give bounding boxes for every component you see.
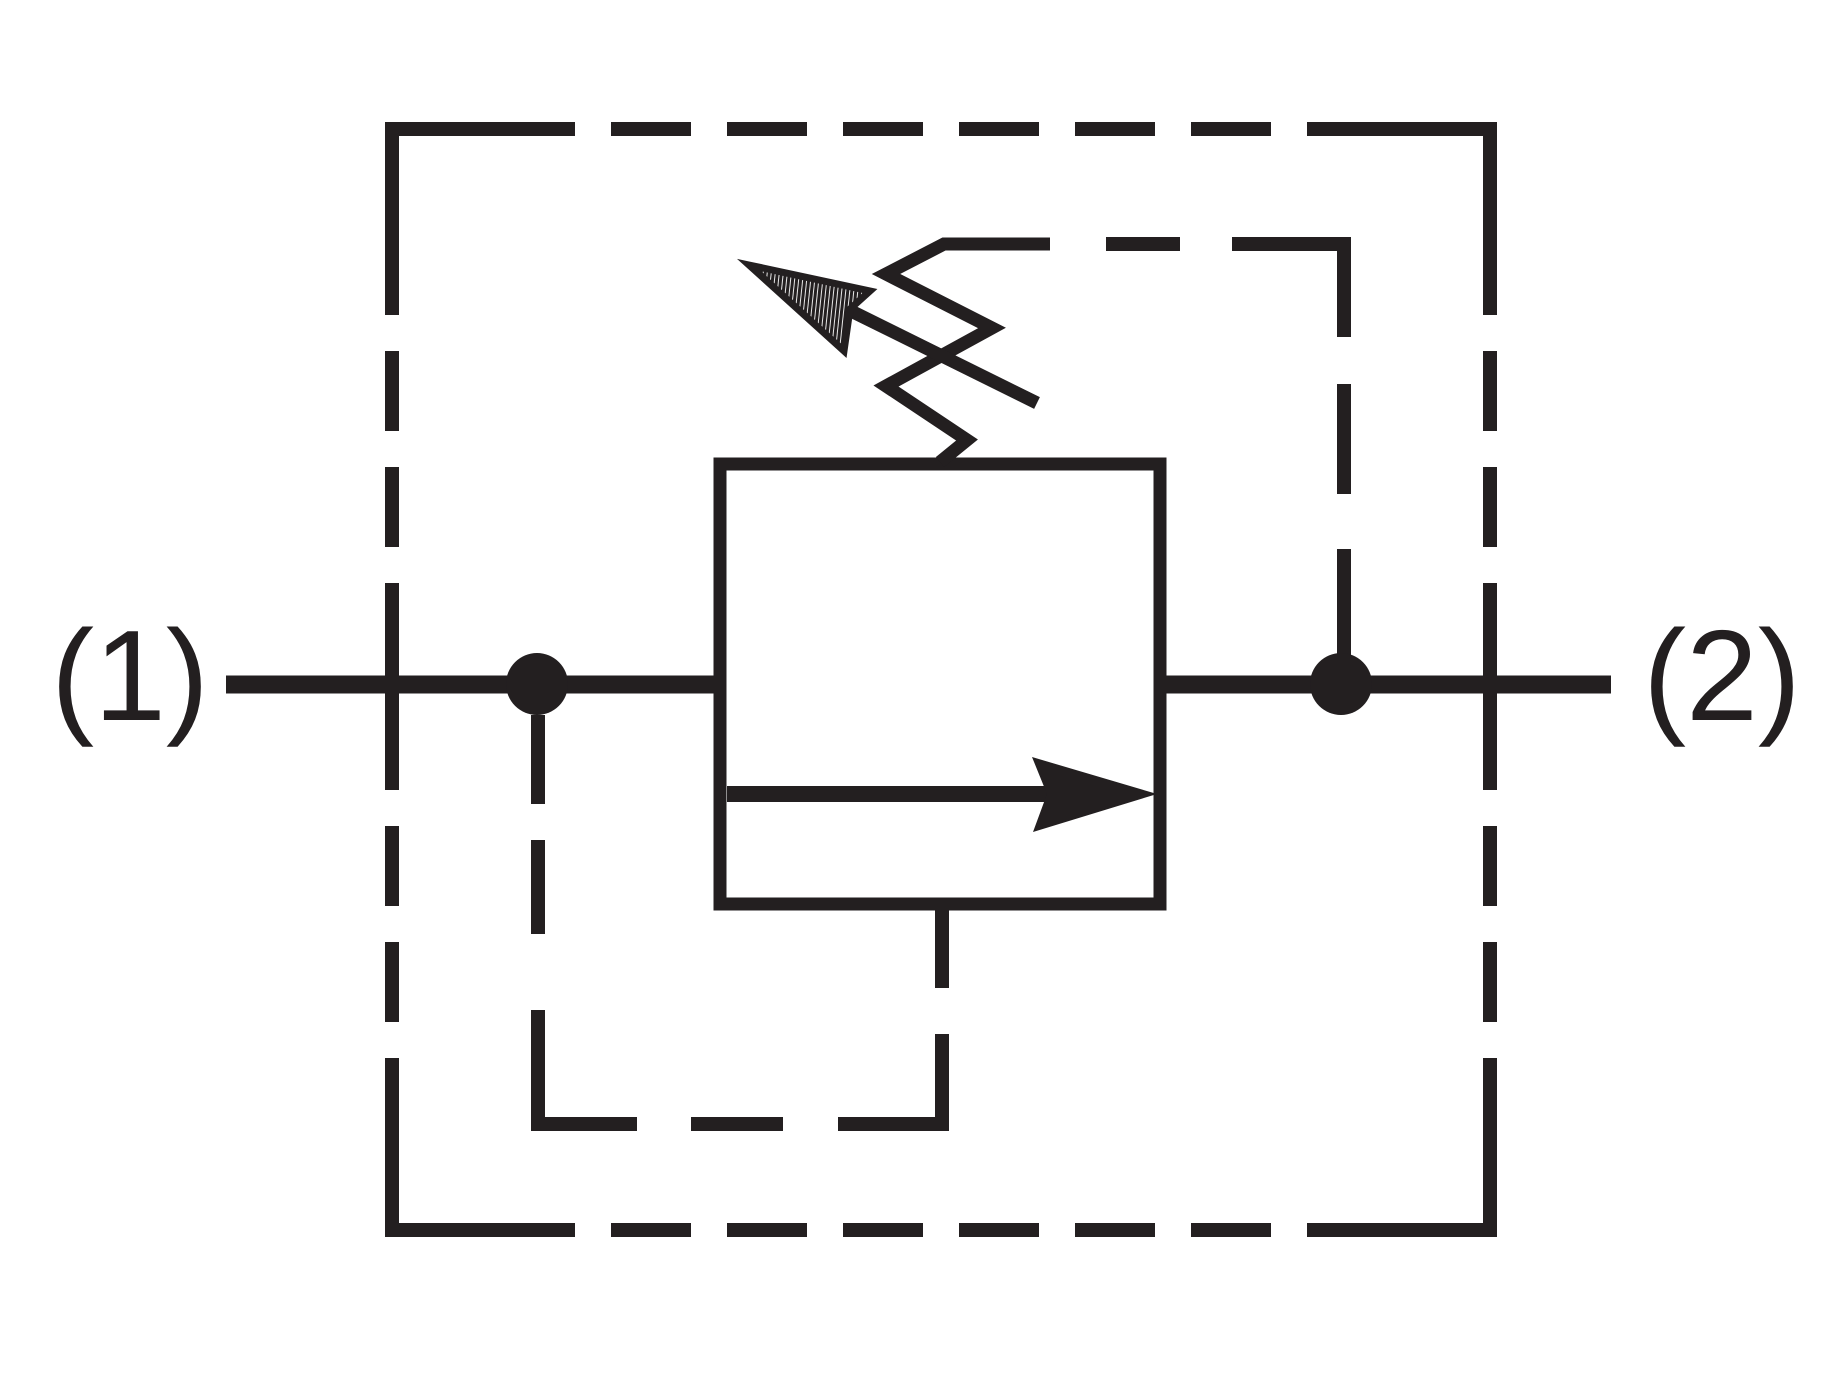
wire: drain stub below valve box [935, 904, 949, 988]
flow path arrowhead [1032, 757, 1157, 832]
flow path arrow shaft inside valve [727, 786, 1070, 802]
enclosure dashed left edge [385, 351, 399, 1022]
svg-text:(2): (2) [1643, 604, 1801, 748]
pilot dashed line from spring top to right corner [1106, 244, 1344, 337]
pilot dashed vertical down to node 2 [1337, 384, 1351, 684]
valve body box [720, 464, 1160, 904]
drain dashed line below node 1 [538, 715, 942, 1124]
node A junction dot (port 1 side) [506, 653, 568, 715]
svg-text:(1): (1) [51, 604, 209, 748]
enclosure dashed right edge [1483, 351, 1497, 1022]
spring (zigzag) [886, 244, 1050, 462]
wire: valve to port 2 [1160, 676, 1611, 694]
wire: main line port 1 to valve [226, 676, 720, 694]
adjustment arrowhead [749, 265, 870, 351]
enclosure dashed bottom edge [392, 1058, 1490, 1230]
adjustment arrow shaft [849, 310, 1037, 403]
node B junction dot (port 2 side) [1310, 653, 1372, 715]
enclosure dashed top edge [392, 129, 1490, 315]
